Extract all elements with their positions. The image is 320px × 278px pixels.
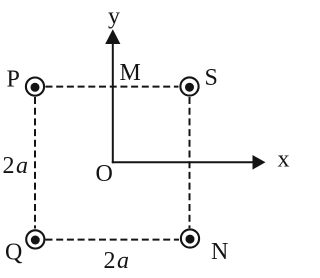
wire: left dashed segment P to Q	[34, 97, 36, 229]
svg-text:O: O	[96, 161, 113, 187]
conductor N (current out of page)	[181, 229, 199, 247]
svg-text:2a: 2a	[3, 153, 29, 179]
svg-text:Q: Q	[5, 240, 22, 266]
svg-text:2a: 2a	[104, 248, 130, 274]
svg-text:S: S	[205, 65, 218, 91]
x-axis	[112, 155, 266, 170]
wire: right dashed segment S to N	[189, 97, 191, 228]
conductor S (current out of page)	[180, 77, 198, 95]
conductor P (current out of page)	[26, 78, 44, 96]
wire: top dashed segment P to S	[46, 86, 179, 88]
y-axis	[105, 29, 120, 163]
svg-text:x: x	[278, 147, 290, 173]
svg-text:P: P	[7, 66, 20, 92]
svg-text:N: N	[211, 239, 228, 265]
conductor Q (current out of page)	[26, 230, 44, 248]
wire: bottom dashed segment Q to N	[46, 239, 180, 241]
svg-text:y: y	[108, 3, 120, 29]
svg-text:M: M	[120, 60, 141, 86]
